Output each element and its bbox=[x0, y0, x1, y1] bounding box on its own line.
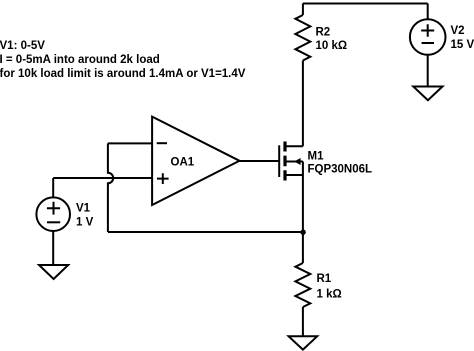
node junction dot bbox=[300, 230, 305, 235]
svg-text:R1: R1 bbox=[317, 273, 332, 285]
label 1 V bbox=[76, 216, 94, 228]
wire node to R1 bbox=[302, 232, 304, 263]
svg-text:M1: M1 bbox=[308, 150, 325, 162]
svg-text:10 kΩ: 10 kΩ bbox=[316, 40, 348, 52]
svg-text:V2: V2 bbox=[451, 25, 465, 37]
wire V2 top bbox=[427, 4, 429, 20]
wire feedback vertical with hop bbox=[108, 143, 113, 232]
label OA1 bbox=[171, 157, 195, 169]
wire op-amp output to gate bbox=[239, 160, 279, 162]
label R2 bbox=[316, 27, 331, 39]
svg-text:V1: 0-5V: V1: 0-5V bbox=[0, 40, 45, 52]
ground for V2 bbox=[413, 87, 442, 101]
annotation text line 3 bbox=[0, 68, 246, 80]
label V1 bbox=[76, 202, 91, 214]
ground for R1 bbox=[289, 336, 318, 349]
wire V1 bottom bbox=[52, 231, 54, 265]
op-amp OA1 bbox=[152, 117, 239, 205]
label 15 V bbox=[451, 39, 474, 51]
transistor M1 bbox=[279, 142, 303, 181]
svg-text:for 10k load limit is around 1: for 10k load limit is around 1.4mA or V1… bbox=[0, 68, 246, 80]
label 1 kOhm bbox=[317, 289, 342, 301]
voltage source V1 bbox=[36, 197, 70, 231]
wire R2 top bbox=[302, 4, 304, 16]
op-amp minus sign bbox=[157, 142, 167, 144]
wire V1 to plus input bbox=[53, 177, 152, 179]
wire V1 top bbox=[52, 178, 54, 197]
wire top rail bbox=[303, 3, 428, 5]
label V2 bbox=[451, 25, 465, 37]
svg-text:OA1: OA1 bbox=[171, 157, 195, 169]
wire V2 bottom bbox=[427, 55, 429, 87]
ground for V1 bbox=[39, 265, 68, 279]
voltage source V2 bbox=[410, 19, 446, 55]
label M1 bbox=[308, 150, 325, 162]
svg-text:R2: R2 bbox=[316, 27, 331, 39]
label FQP30N06L bbox=[308, 164, 373, 176]
wire feedback bottom bbox=[108, 231, 303, 233]
label R1 bbox=[317, 273, 332, 285]
svg-text:I = 0-5mA into around 2k load: I = 0-5mA into around 2k load bbox=[0, 54, 160, 66]
wire source down to node bbox=[302, 175, 304, 232]
resistor R2 bbox=[295, 15, 310, 61]
svg-text:1 V: 1 V bbox=[76, 216, 94, 228]
wire body to source bbox=[302, 162, 304, 176]
wire R1 bottom bbox=[302, 307, 304, 336]
wire R2 to drain bbox=[302, 61, 304, 147]
annotation text line 2 bbox=[0, 54, 160, 66]
svg-text:FQP30N06L: FQP30N06L bbox=[308, 164, 373, 176]
op-amp plus sign bbox=[157, 173, 169, 184]
svg-text:V1: V1 bbox=[76, 202, 91, 214]
label 10 kOhm bbox=[316, 40, 348, 52]
wire minus input stub bbox=[108, 142, 152, 144]
annotation text line 1 bbox=[0, 40, 45, 52]
svg-text:1 kΩ: 1 kΩ bbox=[317, 289, 342, 301]
svg-text:15 V: 15 V bbox=[451, 39, 474, 51]
resistor R1 bbox=[295, 263, 310, 307]
